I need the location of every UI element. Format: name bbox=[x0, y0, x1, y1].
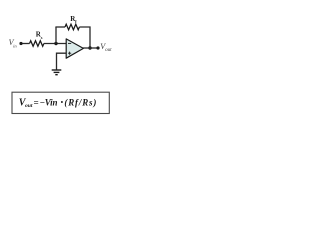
wire feedback top right segment and right vertical bbox=[79, 27, 90, 48]
label Rs bbox=[36, 31, 43, 40]
wire feedback top left segment bbox=[55, 26, 65, 28]
svg-text:out: out bbox=[105, 48, 112, 53]
wire Rs to op-amp inverting input bbox=[44, 43, 66, 45]
wire op-amp output to Vout terminal bbox=[83, 47, 97, 49]
label Rf bbox=[70, 15, 77, 24]
resistor Rs bbox=[30, 41, 44, 47]
resistor Rf bbox=[65, 24, 79, 30]
svg-text:(Rf/Rs): (Rf/Rs) bbox=[64, 97, 96, 107]
svg-text:out: out bbox=[25, 103, 33, 109]
node Vin bbox=[9, 38, 23, 48]
svg-text:in: in bbox=[13, 43, 17, 48]
ground bbox=[52, 70, 62, 75]
junction output node bbox=[88, 46, 91, 49]
wire input terminal to Rs bbox=[23, 43, 30, 45]
svg-text:−Vin: −Vin bbox=[40, 97, 58, 107]
svg-text:=: = bbox=[34, 97, 39, 107]
wire noninverting input to ground bbox=[57, 53, 67, 69]
op-amp U1 bbox=[66, 39, 83, 58]
wire feedback left vertical bbox=[55, 27, 57, 44]
svg-text:s: s bbox=[41, 35, 43, 40]
svg-text:f: f bbox=[75, 19, 77, 24]
formula box Vout = -Vin (Rf/Rs) bbox=[12, 92, 109, 113]
junction input node bbox=[54, 42, 57, 45]
node Vout bbox=[96, 42, 112, 53]
